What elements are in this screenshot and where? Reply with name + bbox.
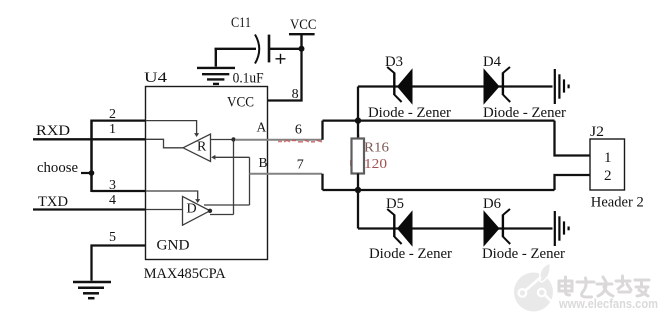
- wire VCC to pin8: [268, 49, 302, 101]
- capacitor C11: [215, 35, 302, 64]
- svg-text:D: D: [187, 202, 197, 217]
- svg-text:6: 6: [295, 122, 302, 137]
- svg-text:D5: D5: [386, 196, 404, 212]
- wire B net vertical: [321, 174, 323, 190]
- wire to D5 row: [357, 190, 359, 229]
- wire RXD to pin1: [33, 138, 146, 140]
- wire bus vertical: [90, 120, 93, 193]
- wire A gray: [236, 139, 322, 141]
- wire R top input: [211, 139, 234, 141]
- junction VCC node: [299, 46, 305, 52]
- wire J2 pin2: [555, 175, 591, 190]
- diode D5: [387, 209, 412, 247]
- svg-text:VCC: VCC: [227, 95, 254, 111]
- wire internal vertical B: [249, 157, 251, 205]
- svg-text:Diode - Zener: Diode - Zener: [369, 246, 452, 262]
- wire B net row: [323, 189, 555, 191]
- svg-text:120: 120: [364, 157, 387, 172]
- svg-text:4: 4: [109, 193, 116, 208]
- ground right top: [555, 69, 569, 104]
- svg-text:TXD: TXD: [38, 194, 68, 210]
- diode D4: [484, 67, 511, 105]
- wire R bottom input: [215, 156, 250, 158]
- svg-text:D4: D4: [483, 54, 501, 70]
- svg-text:B: B: [259, 155, 268, 170]
- svg-text:D3: D3: [385, 54, 403, 70]
- svg-text:Diode - Zener: Diode - Zener: [368, 105, 451, 121]
- ground right bottom: [555, 211, 569, 246]
- svg-text:3: 3: [109, 178, 116, 193]
- svg-text:1: 1: [604, 150, 612, 166]
- arrow pin3 enable: [195, 199, 200, 203]
- svg-text:0.1uF: 0.1uF: [233, 71, 264, 87]
- svg-text:J2: J2: [590, 124, 604, 140]
- diode D6: [484, 209, 511, 247]
- red watermark remnant: [278, 134, 359, 166]
- ground GND left: [73, 282, 111, 298]
- svg-text:R16: R16: [364, 141, 389, 156]
- svg-text:1: 1: [109, 122, 116, 137]
- svg-text:5: 5: [109, 230, 116, 245]
- svg-text:Diode - Zener: Diode - Zener: [483, 105, 566, 121]
- arrow pin2 enable: [194, 133, 199, 137]
- wire TXD to pin4: [33, 208, 146, 210]
- wire to D3 row: [357, 87, 359, 121]
- op-amp U4 box MAX485: [146, 87, 268, 260]
- wire pin2 stub: [92, 119, 147, 121]
- wire pin3 stub: [92, 190, 147, 192]
- wire D bottom output: [210, 214, 234, 216]
- ground top (C11): [197, 49, 235, 84]
- svg-text:MAX485CPA: MAX485CPA: [144, 266, 226, 282]
- svg-text:VCC: VCC: [290, 17, 317, 33]
- power VCC symbol: [289, 34, 315, 49]
- svg-text:2: 2: [604, 168, 612, 184]
- receiver triangle R: [183, 134, 211, 162]
- watermark logo circle: [514, 263, 553, 312]
- wire B gray: [250, 173, 323, 175]
- junction node B-R16 bottom: [355, 187, 361, 193]
- junction node A-R16 top: [355, 117, 361, 123]
- wire D top output: [204, 204, 250, 206]
- wire choose: [81, 172, 92, 174]
- wire R16 top lead: [357, 121, 359, 139]
- resistor R16: [352, 139, 365, 174]
- diode D3: [387, 67, 412, 105]
- svg-text:C11: C11: [231, 15, 251, 31]
- junction R input A: [231, 137, 235, 141]
- svg-text:Header 2: Header 2: [591, 195, 644, 211]
- wire pin4 internal: [146, 209, 183, 211]
- wire pin5 stub: [92, 246, 147, 281]
- driver triangle D: [183, 196, 211, 225]
- svg-text:Diode - Zener: Diode - Zener: [482, 246, 565, 262]
- junction D output: [208, 209, 212, 213]
- svg-text:A: A: [257, 120, 267, 135]
- watermark chinese text: [559, 276, 649, 297]
- svg-text:U4: U4: [144, 70, 168, 86]
- wire A net vertical up: [321, 121, 323, 140]
- svg-text:choose: choose: [37, 160, 78, 176]
- wire D5-D6 row: [358, 227, 553, 229]
- wire pin1 internal: [146, 139, 183, 148]
- wire D3-D4 row: [358, 85, 553, 87]
- junction choose: [89, 170, 95, 176]
- wire J2 pin1: [555, 121, 591, 156]
- wire pin2 internal enable: [146, 121, 197, 134]
- svg-text:2: 2: [109, 107, 116, 122]
- wire R16 bottom lead: [357, 174, 359, 191]
- wire pin3 internal enable: [146, 191, 198, 200]
- wire A net row: [323, 119, 555, 121]
- connector J2: [590, 139, 625, 190]
- svg-text:R: R: [197, 140, 207, 155]
- svg-text:RXD: RXD: [36, 123, 70, 139]
- wire internal vertical A: [233, 140, 235, 215]
- svg-text:D6: D6: [483, 196, 501, 212]
- svg-text:GND: GND: [157, 238, 190, 254]
- svg-text:7: 7: [297, 157, 304, 172]
- arrow R bottom input: [211, 155, 215, 160]
- svg-text:www.elecfans.com: www.elecfans.com: [558, 296, 658, 311]
